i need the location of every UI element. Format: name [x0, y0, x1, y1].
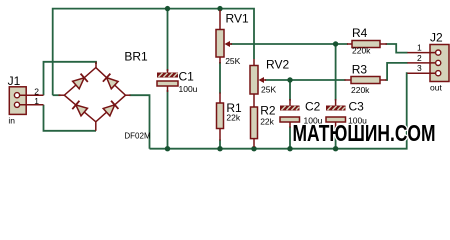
- capacitor C1: [157, 69, 178, 92]
- diode BR1 upper-right: [103, 74, 119, 90]
- resistor R2: [251, 107, 258, 147]
- svg-text:25K: 25K: [225, 56, 240, 66]
- junction top rail C1: [165, 6, 170, 11]
- svg-text:R2: R2: [260, 104, 276, 118]
- resistor R4: [347, 41, 387, 48]
- junction RV1 wiper R4 C3: [333, 41, 338, 46]
- wire J1 pin2 to BR1 top: [44, 62, 97, 95]
- svg-text:22k: 22k: [260, 117, 274, 127]
- wire R1 bottom to rail: [219, 140, 221, 149]
- svg-text:in: in: [8, 116, 15, 126]
- svg-text:100u: 100u: [179, 84, 198, 94]
- svg-text:3: 3: [417, 63, 422, 73]
- diode BR1 lower-left: [72, 101, 88, 117]
- svg-text:2: 2: [34, 86, 39, 96]
- diode BR1 lower-right: [103, 101, 119, 117]
- potentiometer RV2: [250, 59, 266, 107]
- capacitor C3: [326, 99, 346, 128]
- resistor R1: [217, 93, 224, 141]
- wire node R4-C3 vertical: [335, 44, 337, 101]
- junction top rail RV1: [217, 6, 222, 11]
- wire BR1 left vertex to left rail: [53, 94, 61, 96]
- wire BR1 right vertex to bottom rail: [130, 95, 150, 149]
- wire R3 right to J2 pin2: [386, 63, 408, 80]
- svg-text:out: out: [430, 83, 442, 93]
- diode BR1 upper-left: [72, 74, 88, 90]
- wire bottom rail net GND: [150, 73, 408, 149]
- capacitor C2: [280, 99, 300, 128]
- junction bottom rail R2: [251, 146, 256, 151]
- svg-text:RV2: RV2: [266, 58, 289, 72]
- wire C3 bottom: [335, 127, 337, 149]
- wire C2 bottom: [289, 127, 291, 149]
- svg-text:22k: 22k: [226, 113, 240, 123]
- potentiometer RV1: [216, 10, 232, 64]
- wire C2 top: [289, 80, 291, 101]
- bridge rectifier BR1: [59, 62, 131, 131]
- junction bottom rail C2: [287, 146, 292, 151]
- wire R4 right to J2 pin1: [386, 44, 408, 53]
- svg-text:C2: C2: [305, 100, 321, 114]
- junction bottom rail C1: [165, 146, 170, 151]
- junction bottom rail C3: [333, 146, 338, 151]
- wire C1 top: [167, 9, 169, 71]
- wire RV1 bottom to R1 top: [219, 62, 221, 94]
- svg-text:C1: C1: [179, 70, 195, 84]
- wire J1 pin1 to BR1 bottom: [44, 105, 97, 131]
- resistor R3: [345, 77, 387, 84]
- junction RV2 wiper C2: [287, 77, 292, 82]
- junction bottom rail R1: [217, 146, 222, 151]
- connector J1: [9, 87, 43, 115]
- svg-text:220k: 220k: [352, 46, 371, 56]
- svg-text:25K: 25K: [261, 85, 276, 95]
- svg-text:DF02M: DF02M: [124, 131, 151, 140]
- svg-text:BR1: BR1: [124, 50, 148, 64]
- svg-text:R4: R4: [352, 26, 368, 40]
- svg-text:220k: 220k: [351, 85, 370, 95]
- wire C1 bottom: [167, 90, 169, 149]
- svg-text:C3: C3: [349, 100, 365, 114]
- svg-text:J2: J2: [430, 31, 443, 45]
- svg-text:1: 1: [34, 96, 39, 106]
- svg-text:R3: R3: [352, 63, 368, 77]
- wire top rail net VIN: [53, 9, 254, 96]
- svg-text:1: 1: [417, 43, 422, 53]
- connector J2: [407, 45, 449, 82]
- wire RV2 wiper to R3: [265, 79, 346, 81]
- svg-text:2: 2: [417, 53, 422, 63]
- svg-text:J1: J1: [8, 74, 21, 88]
- svg-text:RV1: RV1: [226, 12, 249, 26]
- svg-text:МАТЮШИН.COM: МАТЮШИН.COM: [293, 120, 436, 146]
- wire RV1 wiper to R4: [231, 43, 349, 45]
